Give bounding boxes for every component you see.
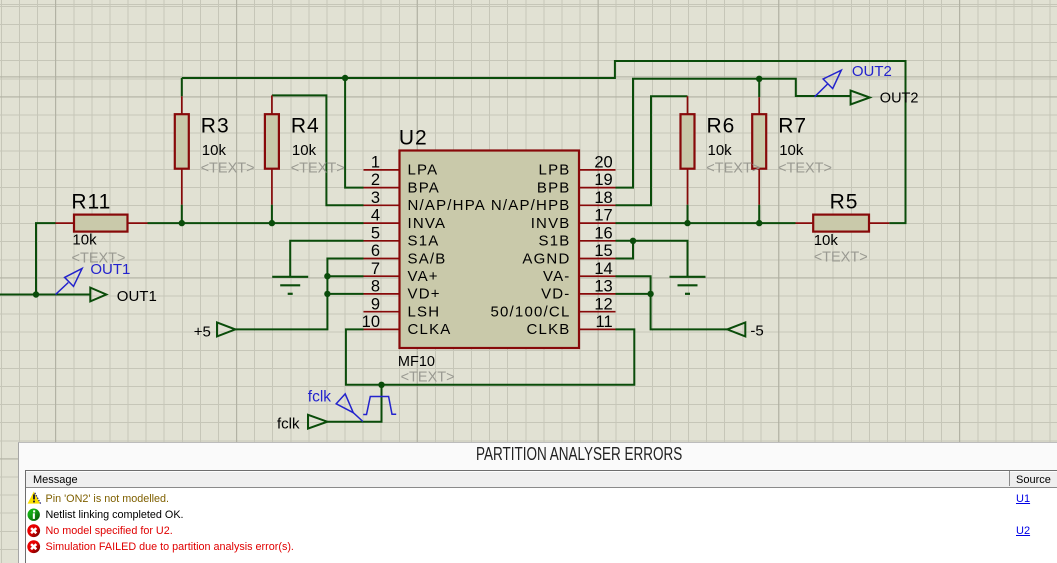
svg-text:S1B: S1B <box>539 233 571 250</box>
svg-text:S1A: S1A <box>408 233 440 250</box>
svg-text:9: 9 <box>371 295 380 313</box>
svg-text:10: 10 <box>362 313 380 331</box>
svg-text:3: 3 <box>371 189 380 207</box>
svg-text:VD+: VD+ <box>408 286 441 303</box>
svg-text:INVA: INVA <box>408 215 447 232</box>
svg-text:<TEXT>: <TEXT> <box>401 370 455 386</box>
svg-text:<TEXT>: <TEXT> <box>778 160 832 176</box>
svg-text:6: 6 <box>371 242 380 260</box>
svg-text:11: 11 <box>596 313 613 331</box>
svg-text:R7: R7 <box>778 114 807 137</box>
svg-text:10k: 10k <box>202 142 227 159</box>
svg-text:<TEXT>: <TEXT> <box>291 160 345 176</box>
svg-text:R5: R5 <box>830 190 859 213</box>
svg-text:fclk: fclk <box>277 416 300 433</box>
svg-text:VA-: VA- <box>543 268 571 285</box>
svg-text:10k: 10k <box>292 142 317 159</box>
svg-text:CLKB: CLKB <box>527 321 571 338</box>
svg-text:CLKA: CLKA <box>408 321 452 338</box>
svg-text:4: 4 <box>371 207 380 225</box>
svg-text:U2: U2 <box>399 127 428 150</box>
svg-text:-5: -5 <box>750 322 763 339</box>
svg-text:N/AP/HPB: N/AP/HPB <box>491 197 571 214</box>
svg-text:7: 7 <box>371 260 380 278</box>
svg-text:10k: 10k <box>708 142 733 159</box>
svg-text:<TEXT>: <TEXT> <box>814 250 868 266</box>
svg-text:SA/B: SA/B <box>408 250 447 267</box>
svg-text:VA+: VA+ <box>408 268 439 285</box>
svg-text:LPA: LPA <box>408 162 439 179</box>
svg-text:BPA: BPA <box>408 179 441 196</box>
svg-text:1: 1 <box>371 154 380 172</box>
svg-text:LSH: LSH <box>408 304 441 321</box>
svg-text:15: 15 <box>594 242 612 260</box>
svg-text:R11: R11 <box>71 190 111 213</box>
svg-text:OUT1: OUT1 <box>90 261 130 278</box>
svg-text:fclk: fclk <box>308 388 332 405</box>
svg-text:N/AP/HPA: N/AP/HPA <box>408 197 487 214</box>
svg-text:8: 8 <box>371 278 380 296</box>
svg-text:13: 13 <box>594 278 612 296</box>
svg-text:50/100/CL: 50/100/CL <box>490 304 570 321</box>
svg-text:16: 16 <box>594 224 612 242</box>
svg-text:<TEXT>: <TEXT> <box>201 160 255 176</box>
svg-text:5: 5 <box>371 224 380 242</box>
svg-text:R4: R4 <box>291 114 320 137</box>
svg-text:2: 2 <box>371 171 380 189</box>
svg-text:R3: R3 <box>201 114 230 137</box>
svg-text:14: 14 <box>594 260 612 278</box>
svg-text:LPB: LPB <box>539 162 571 179</box>
svg-text:10k: 10k <box>72 232 97 249</box>
svg-text:19: 19 <box>594 171 612 189</box>
svg-text:10k: 10k <box>779 142 804 159</box>
svg-text:18: 18 <box>594 189 612 207</box>
svg-text:<TEXT>: <TEXT> <box>706 160 760 176</box>
svg-text:INVB: INVB <box>531 215 571 232</box>
svg-text:17: 17 <box>594 207 612 225</box>
svg-text:AGND: AGND <box>522 250 570 267</box>
svg-text:R6: R6 <box>707 114 736 137</box>
svg-text:+5: +5 <box>194 323 211 340</box>
svg-text:12: 12 <box>594 295 612 313</box>
svg-text:VD-: VD- <box>541 286 570 303</box>
svg-text:OUT2: OUT2 <box>880 91 919 107</box>
svg-text:MF10: MF10 <box>398 354 435 370</box>
svg-text:OUT1: OUT1 <box>117 288 157 305</box>
svg-text:BPB: BPB <box>537 179 571 196</box>
svg-text:OUT2: OUT2 <box>852 63 892 80</box>
svg-text:10k: 10k <box>814 232 839 249</box>
svg-text:20: 20 <box>594 154 612 172</box>
